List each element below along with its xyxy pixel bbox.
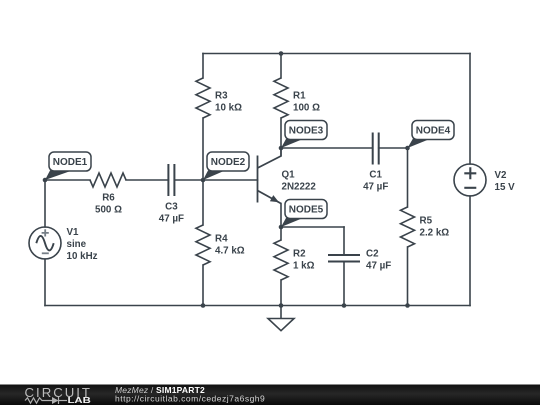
Q1 emitter lead	[258, 191, 282, 204]
wire NODE1 to R6	[45, 179, 90, 181]
svg-text:LAB: LAB	[68, 396, 91, 405]
node NODE5 flag	[281, 200, 327, 228]
wire R3 bottom lead to NODE2	[202, 118, 204, 180]
node NODE1 flag	[45, 152, 91, 180]
wire NODE5 to C2 branch	[281, 226, 344, 228]
resistor R1 100 zigzag	[274, 78, 288, 118]
logo zigzag wire and diode	[25, 397, 67, 404]
wire bottom rail	[45, 305, 470, 307]
svg-text:47 µF: 47 µF	[159, 213, 184, 224]
node NODE4 flag	[408, 121, 455, 149]
wire C1 to NODE4	[379, 147, 408, 149]
wire V1 top lead to NODE1	[44, 180, 46, 227]
capacitor C1 plates	[373, 133, 379, 165]
wire R1 bottom lead to NODE3	[280, 118, 282, 148]
svg-text:V2: V2	[495, 170, 508, 181]
svg-text:C2: C2	[366, 249, 379, 260]
node NODE2 flag	[203, 152, 249, 180]
junction node NODE3	[279, 146, 284, 151]
Q1 base bar	[257, 156, 259, 203]
svg-text:NODE5: NODE5	[289, 205, 324, 216]
wire C3 to NODE2	[174, 179, 203, 181]
wire R5 bottom lead	[407, 247, 409, 306]
wire NODE5 to R2	[280, 227, 282, 240]
ground	[268, 319, 294, 331]
svg-text:NODE4: NODE4	[416, 126, 451, 137]
wire R1 top lead	[280, 54, 282, 79]
junction node NODE1	[43, 178, 48, 183]
svg-text:1 kΩ: 1 kΩ	[293, 261, 315, 272]
resistor R2 1k zigzag	[274, 240, 288, 280]
svg-text:R3: R3	[215, 91, 228, 102]
resistor R3 10k zigzag	[196, 78, 210, 118]
wire NODE3 to C1	[281, 147, 373, 149]
wire R3 top lead	[202, 54, 204, 79]
svg-text:15 V: 15 V	[495, 182, 516, 193]
svg-text:R2: R2	[293, 249, 306, 260]
svg-text:R4: R4	[215, 233, 228, 244]
wire top rail	[203, 53, 470, 55]
wire R4 bottom lead	[202, 265, 204, 306]
source V1 sine	[29, 227, 61, 259]
svg-text:V1: V1	[67, 227, 80, 238]
wire R6 to C3	[126, 179, 168, 181]
junction node NODE2	[201, 178, 206, 183]
wire Q1 emitter to NODE5	[280, 204, 282, 228]
svg-text:100 Ω: 100 Ω	[293, 103, 320, 114]
wire NODE2 to Q1 base	[203, 179, 258, 181]
resistor R6 500 zigzag	[90, 173, 126, 187]
capacitor C3 plates	[168, 164, 174, 196]
wire V1 bottom lead	[44, 259, 46, 306]
svg-text:500 Ω: 500 Ω	[95, 205, 122, 216]
wire R2 bottom lead	[280, 280, 282, 306]
V1 polarity marks	[42, 229, 49, 253]
svg-text:10 kΩ: 10 kΩ	[215, 103, 242, 114]
junction R5 / ground rail	[405, 303, 410, 308]
svg-text:Q1: Q1	[282, 169, 296, 180]
wire C2 top lead	[343, 227, 345, 255]
capacitor C2 plates	[328, 255, 360, 262]
svg-text:R1: R1	[293, 91, 306, 102]
svg-text:http://circuitlab.com/cedezj7a: http://circuitlab.com/cedezj7a6sgh9	[115, 394, 265, 404]
Q1 emitter arrowhead	[270, 195, 279, 202]
junction node NODE5	[279, 225, 284, 230]
wire NODE4 down to R5	[407, 148, 409, 207]
svg-text:NODE3: NODE3	[289, 126, 324, 137]
svg-text:NODE2: NODE2	[211, 157, 246, 168]
svg-text:4.7 kΩ: 4.7 kΩ	[215, 245, 245, 256]
svg-text:2.2 kΩ: 2.2 kΩ	[420, 228, 450, 239]
wire C2 bottom lead	[343, 262, 345, 306]
resistor R4 4.7k zigzag	[196, 225, 210, 265]
junction top rail / R1	[279, 51, 284, 56]
svg-text:R6: R6	[102, 193, 115, 204]
wire right rail bottom (V2 minus to bottom rail)	[469, 196, 471, 306]
junction R4 / ground rail	[201, 303, 206, 308]
transistor Q1 2N2222	[258, 148, 282, 204]
junction ground stem	[279, 303, 284, 308]
svg-text:47 µF: 47 µF	[366, 261, 391, 272]
wire right rail top (to V2 plus)	[469, 54, 471, 165]
svg-text:NODE1: NODE1	[53, 157, 88, 168]
svg-text:10 kHz: 10 kHz	[67, 251, 98, 262]
wire ground stem	[280, 306, 282, 319]
source V2 15V	[454, 164, 486, 196]
svg-text:R5: R5	[420, 216, 433, 227]
svg-text:sine: sine	[67, 239, 87, 250]
junction C2 / ground rail	[342, 303, 347, 308]
resistor R5 2.2k zigzag	[401, 207, 415, 247]
junction node NODE4	[405, 146, 410, 151]
logo diode triangle	[52, 397, 59, 404]
node NODE3 flag	[281, 121, 327, 149]
svg-text:47 µF: 47 µF	[363, 181, 388, 192]
svg-text:C1: C1	[369, 169, 382, 180]
svg-text:2N2222: 2N2222	[282, 181, 317, 192]
wire NODE2 to R4	[202, 180, 204, 225]
Q1 collector lead	[258, 148, 282, 168]
svg-text:C3: C3	[165, 201, 178, 212]
